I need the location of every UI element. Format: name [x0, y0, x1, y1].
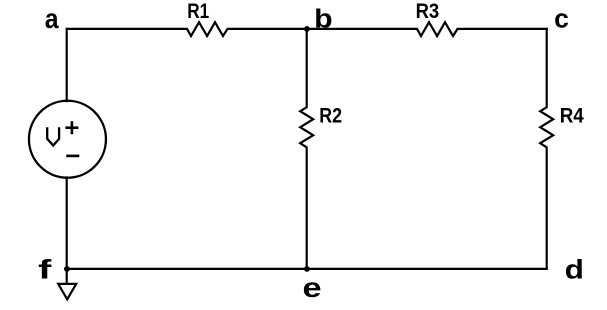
svg-text:R3: R3 [416, 0, 440, 23]
svg-text:f: f [38, 254, 53, 284]
svg-text:c: c [554, 4, 569, 34]
svg-text:R2: R2 [319, 104, 342, 128]
svg-text:b: b [314, 5, 333, 33]
svg-text:e: e [303, 272, 322, 303]
svg-text:R1: R1 [187, 0, 209, 23]
svg-text:R4: R4 [560, 104, 584, 128]
svg-text:d: d [565, 254, 584, 284]
svg-text:a: a [45, 3, 59, 34]
